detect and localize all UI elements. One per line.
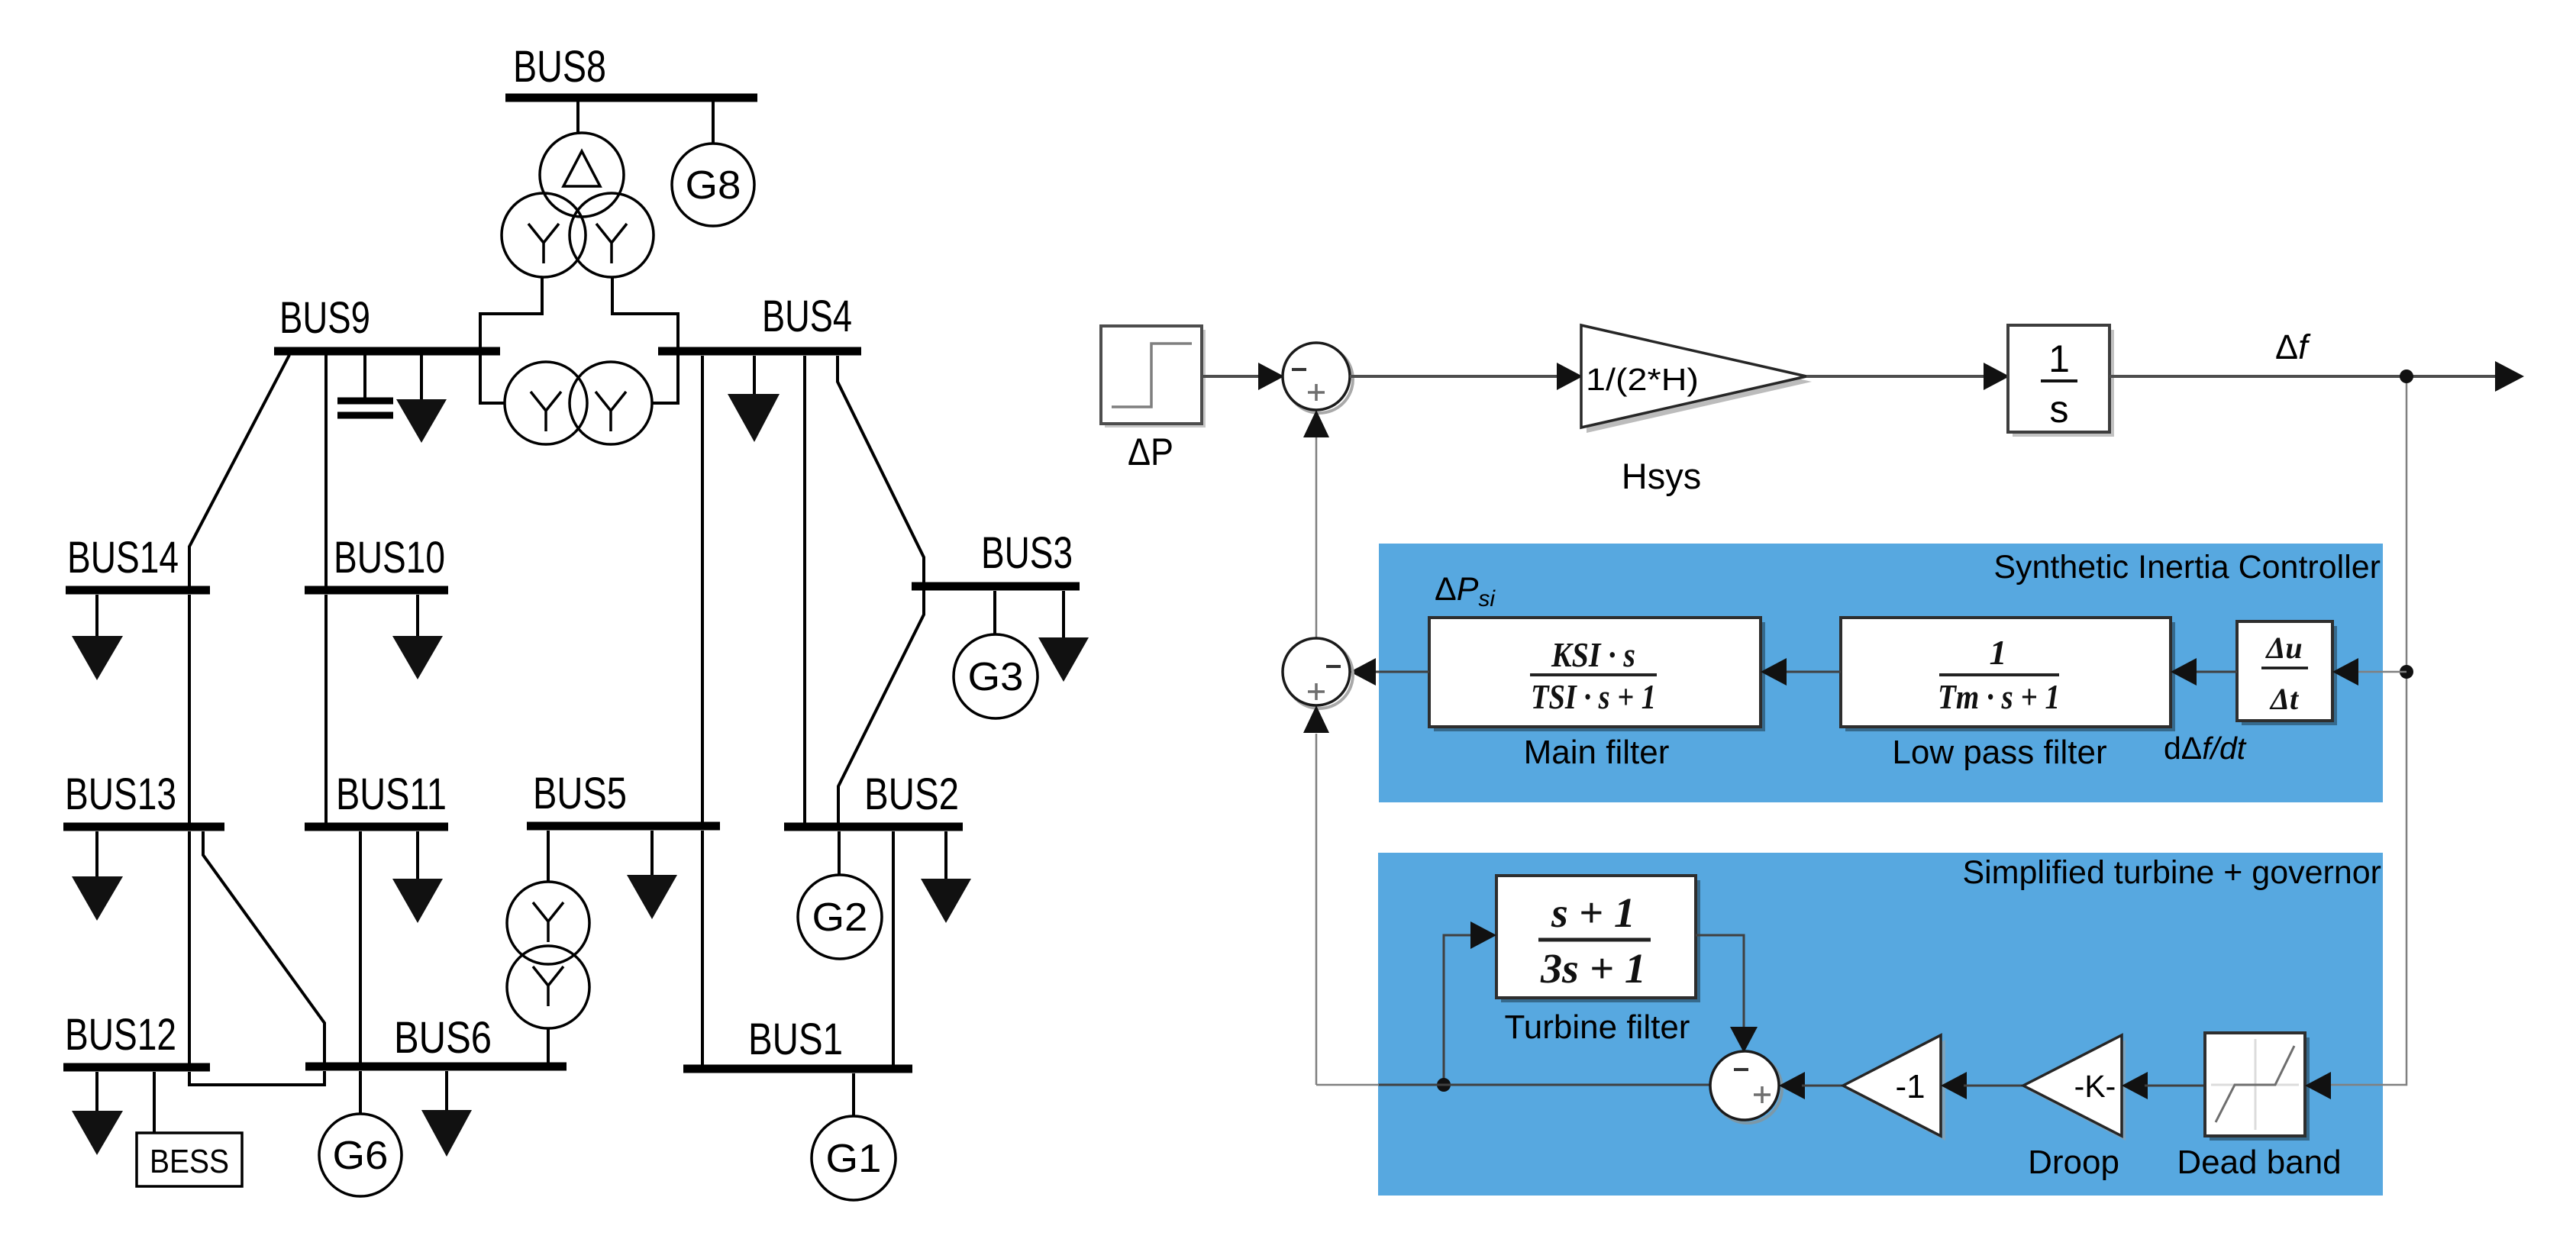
svg-text:BUS8: BUS8 [513,42,606,92]
label Low pass filter [1892,734,2106,771]
bus BUS13 label [65,770,176,819]
wire feedback Delta-f vertical (right) [2326,379,2407,1085]
gain -1 triangle [1843,1035,1945,1141]
bus BUS13 bar [63,823,224,831]
bus BUS12 bar [63,1063,210,1072]
bus BUS6 bar [305,1063,567,1071]
svg-text:G8: G8 [686,163,741,208]
wire line 1-5 [701,831,704,1066]
bus BUS11 bar [305,823,448,831]
arrowhead into droop right [2122,1072,2148,1099]
svg-text:G3: G3 [968,655,1024,699]
svg-text:BUS6: BUS6 [394,1013,492,1063]
svg-text:Synthetic Inertia Controller: Synthetic Inertia Controller [1993,549,2381,586]
transfer block Main filter KSI.s/(TSI.s+1) [1429,618,1765,731]
bus BUS6 label [394,1013,492,1063]
wire line 6-13 diagonal [203,831,324,1063]
wire line 3-4 diagonal [838,356,924,583]
wire T5-6 to BUS6 [547,1028,550,1063]
svg-text:TSI · s + 1: TSI · s + 1 [1531,677,1656,716]
label Delta-P-si [1435,571,1496,611]
area Simplified turbine + governor (blue) [1378,853,2383,1196]
wire line 10-11 [324,595,328,823]
wire du/dt to low pass filter [2171,658,2237,686]
arrowhead into sum2 bottom (plus input) [1303,705,1329,733]
bus BUS12 label [65,1010,176,1060]
bus BUS3 label [981,528,1073,578]
svg-text:G6: G6 [333,1134,389,1178]
load at BUS14 [72,595,123,680]
svg-text:BUS11: BUS11 [336,770,447,819]
bus BUS1 label [748,1015,843,1064]
area Synthetic Inertia Controller (blue) [1379,544,2383,802]
wire step to sum1 [1202,363,1284,390]
wire governor-loop vertical to upper sums [1315,734,1318,1085]
load at BUS10 [392,595,443,679]
load at BUS4 [728,356,780,442]
load at BUS11 [392,831,443,923]
svg-text:BUS2: BUS2 [864,770,959,819]
load at BUS5 [627,831,677,919]
sum block sum2 (SI, minus plus) [1283,638,1353,708]
transformer T9-4 two-winding (Y Y) [505,362,652,444]
wire integrator to output [2110,375,2498,378]
wire line 1-2 [892,831,895,1066]
bus BUS8 label [513,42,606,92]
generator G6 [319,1114,402,1196]
svg-text:KSI · s: KSI · s [1551,635,1635,674]
svg-text:Δu: Δu [2264,631,2302,665]
wire line 6-12 jog [189,1071,324,1085]
svg-text:1: 1 [2048,337,2070,380]
label Droop [2028,1144,2119,1181]
svg-text:BUS1: BUS1 [748,1015,843,1064]
label dDelta-f/dt [2164,731,2247,766]
svg-text:BUS12: BUS12 [65,1010,176,1060]
load at BUS3 [1038,591,1089,682]
label Main filter [1524,734,1670,771]
svg-text:s + 1: s + 1 [1551,889,1635,936]
wire -1 gain to sum3 [1802,1085,1843,1087]
transformer T8 three-winding (delta / Y Y) [502,133,654,277]
arrowhead into -1 gain right [1941,1072,1967,1099]
svg-text:Dead band: Dead band [2177,1144,2341,1181]
bus BUS5 label [533,769,627,818]
capacitor at BUS9 [337,355,393,415]
saturation block Dead band [2205,1033,2310,1141]
bus BUS4 label [762,292,852,341]
svg-text:1/(2*H): 1/(2*H) [1586,362,1699,397]
svg-text:Δf: Δf [2275,328,2311,366]
svg-text:ΔP: ΔP [1128,431,1173,473]
svg-text:Droop: Droop [2028,1144,2119,1181]
wire BUS2 to G2 [838,831,841,875]
bus BUS9 label [279,293,370,343]
wire dead band to droop [2145,1085,2205,1087]
wire T8 right winding to BUS4 [612,277,678,403]
svg-text:-1: -1 [1895,1068,1925,1105]
bus BUS2 bar [784,823,963,831]
label Turbine filter [1505,1008,1690,1046]
svg-text:Main filter: Main filter [1524,734,1670,771]
wire BUS12 to BESS [153,1072,156,1133]
svg-text:G1: G1 [826,1137,882,1181]
svg-text:BUS5: BUS5 [533,769,627,818]
wire line 6-11 [359,831,362,1063]
load at BUS2 [921,831,971,923]
wire droop to -1 gain [1964,1085,2023,1087]
wire turbine filter output to sum3 top [1696,935,1758,1053]
svg-text:s: s [2050,388,2069,431]
wire line 12-13 [188,831,191,1064]
svg-text:BUS3: BUS3 [981,528,1073,578]
generator G1 [812,1116,896,1200]
wire line 2-3 diagonal [838,590,924,824]
bus BUS14 bar [66,586,210,595]
wire line 9-14 diagonal [189,355,289,588]
bus BUS3 bar [912,582,1080,591]
svg-text:BESS: BESS [150,1143,229,1180]
svg-text:Tm · s + 1: Tm · s + 1 [1938,677,2060,716]
wire BUS3 to G3 [993,591,996,634]
arrowhead into sum1 bottom (plus input) [1303,410,1329,437]
svg-text:Low pass filter: Low pass filter [1892,734,2106,771]
wire line 9-10 [324,355,328,588]
bus BUS4 bar [658,347,861,356]
transfer block Low pass filter 1/(Tm.s+1) [1841,618,2175,731]
svg-text:BUS9: BUS9 [279,293,370,343]
label Delta-P [1128,431,1173,473]
derivative block du/dt [2237,621,2337,725]
bus BUS14 label [67,533,179,582]
load at BUS9 [396,355,447,443]
wire line 2-4 [803,356,806,824]
bus BUS10 label [334,533,445,582]
bus BUS5 bar [527,822,720,831]
wire line 4-5 [701,356,704,823]
svg-text:G2: G2 [812,895,868,940]
svg-text:BUS4: BUS4 [762,292,852,341]
svg-text:BUS14: BUS14 [67,533,179,582]
wire line 13-14 [188,595,191,824]
generator G2 [798,875,882,959]
wire BUS8 to G8 [712,102,715,144]
bus BUS2 label [864,770,959,819]
integrator block 1/s [2008,325,2114,437]
sum block sum3 (governor, minus plus) [1710,1051,1782,1123]
svg-text:BUS10: BUS10 [334,533,445,582]
label Hsys [1622,456,1701,496]
svg-text:3s + 1: 3s + 1 [1540,945,1646,992]
wire BUS6 to G6 [359,1071,362,1114]
node junction at governor output [1437,1078,1451,1092]
node junction on feedback at d-u/d-t branch [2353,665,2413,679]
arrowhead into du/dt right [2332,658,2358,686]
bus BUS11 label [336,770,447,819]
node junction Delta-f [2400,369,2413,383]
wire BUS8 to transformer T8 [576,102,579,134]
wire T8 left winding to BUS9 [480,277,542,403]
BESS block [137,1133,242,1186]
wire main filter to sum2 [1350,658,1429,686]
svg-text:1: 1 [1990,633,2007,672]
wire BUS1 to G1 [852,1073,855,1116]
svg-text:Hsys: Hsys [1622,456,1701,496]
wire BUS5 to transformer T5-6 [547,831,550,883]
sum block sum1 (minus plus) [1283,343,1353,413]
gain Droop -K- triangle [2023,1035,2126,1141]
area title Simplified turbine + governor [1962,854,2381,891]
label Delta-f [2275,328,2311,366]
bus BUS1 bar [683,1065,912,1073]
wire gain to integrator [1806,363,2009,390]
svg-text:-K-: -K- [2074,1069,2116,1104]
bus BUS10 bar [305,586,448,595]
generator G3 [954,634,1038,718]
generator G8 [672,144,754,226]
label Dead band [2177,1144,2341,1181]
transfer block Turbine filter (s+1)/(3s+1) [1496,876,1700,1002]
svg-text:dΔf/dt: dΔf/dt [2164,731,2247,766]
wire SI sum output up to main sum [1315,435,1318,638]
transformer T5-6 two-winding (Y Y) [507,882,589,1028]
wire branch up into turbine filter [1444,921,1496,1085]
arrowhead into dead band right [2305,1072,2331,1099]
bus BUS9 bar [274,347,500,356]
svg-text:BUS13: BUS13 [65,770,176,819]
load at BUS12 [72,1072,123,1155]
wire sum3 output left [1316,1084,1710,1086]
area title Synthetic Inertia Controller [1993,549,2381,586]
bus BUS8 bar [505,94,757,102]
arrowhead into sum3 right [1779,1072,1805,1099]
svg-text:Turbine filter: Turbine filter [1505,1008,1690,1046]
svg-text:Δt: Δt [2269,682,2300,716]
gain Hsys triangle 1/(2*H) [1581,325,1812,433]
svg-text:Simplified turbine + governor: Simplified turbine + governor [1962,854,2381,891]
load at BUS6 [421,1071,472,1157]
arrowhead output [2495,361,2524,392]
wire low pass filter to main filter [1761,658,1841,686]
load at BUS13 [72,831,123,921]
wire sum1 to gain Hsys [1350,363,1583,390]
source step Delta-P block [1101,326,1206,428]
